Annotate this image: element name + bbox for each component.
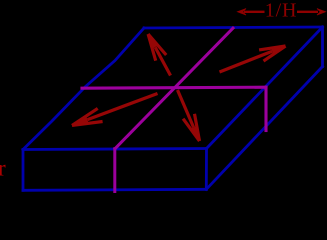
svg-text:r: r	[0, 156, 6, 181]
arrow pointing down from centre of top face	[178, 90, 200, 141]
slab right face bottom edge	[206, 67, 322, 190]
dimension arrow right half (1/H width marker)	[297, 9, 326, 15]
slab front face left vertical edge	[22, 150, 25, 191]
slab top face left edge	[23, 28, 144, 150]
svg-text:1/H: 1/H	[265, 0, 297, 22]
slab top face back edge	[144, 27, 323, 28]
dimension arrow left half (1/H width marker)	[238, 9, 265, 15]
division line on front face (vertical)	[113, 149, 116, 192]
slab front-right vertical edge	[205, 149, 208, 190]
slab top face front edge	[23, 149, 207, 150]
arrow pointing down-left from centre of top face	[72, 94, 158, 126]
division line across top face (horizontal direction)	[82, 87, 266, 88]
slab front face bottom edge	[23, 189, 206, 190]
division line on right face (vertical)	[264, 87, 267, 130]
slab back-right vertical edge	[321, 27, 324, 67]
arrow pointing up-left from centre of top face	[148, 34, 170, 75]
slab top face right edge	[207, 27, 323, 149]
arrow pointing right from centre of top face	[220, 46, 286, 72]
division line across top face (depth direction)	[115, 28, 233, 149]
